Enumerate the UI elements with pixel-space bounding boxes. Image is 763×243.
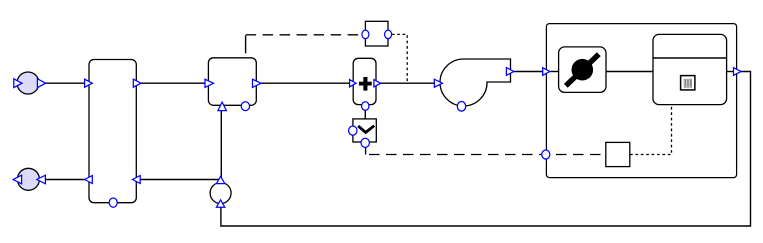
hea left port — [350, 80, 356, 87]
conTop right port — [385, 30, 392, 39]
wire hex top-right to eco left port — [140, 82, 207, 84]
hex bottom heat port — [109, 198, 117, 207]
souAir right port — [37, 79, 45, 88]
dashed control line eco top to conTop left port — [245, 36, 247, 54]
room convector icon — [681, 76, 695, 90]
dotted line conTop right port down to supply wire — [392, 34, 407, 83]
wire hea bottom port to hys block — [364, 109, 366, 120]
souRet right port — [37, 175, 46, 184]
hys left port — [349, 126, 357, 135]
fan outlet port — [506, 68, 513, 76]
wire souAir to hex top-left port — [45, 82, 87, 84]
wire return feedback: container outlet, down right side, along bottom, up to sensor — [221, 72, 751, 227]
wire damper to room — [606, 71, 654, 73]
hex bottom-left port — [85, 176, 93, 184]
hysteresis hys — [353, 119, 376, 142]
wire container inlet to damper — [546, 71, 559, 73]
sensor bottom port — [216, 200, 224, 207]
room header divider — [653, 57, 727, 59]
eco right port — [253, 79, 262, 87]
fan — [440, 59, 510, 106]
fan heat port — [457, 102, 465, 112]
room volume — [653, 34, 727, 104]
sensor temRoo — [210, 183, 231, 204]
controller conTop — [365, 21, 388, 46]
wire fan outlet to container inlet — [513, 71, 545, 73]
container outlet port — [734, 68, 742, 76]
sensor top port — [216, 176, 224, 183]
souRet sink circle — [17, 168, 39, 190]
eco bottom return port — [218, 102, 227, 111]
dotted line conv box to room bottom — [630, 105, 672, 155]
container room system boundary — [546, 24, 736, 178]
wire junction sensor to hex bottom-right port — [137, 179, 222, 181]
conductor box conv — [606, 142, 630, 166]
heater hea — [353, 58, 376, 104]
container control port — [542, 150, 550, 159]
hea right port — [374, 80, 381, 87]
container inlet port — [543, 68, 550, 76]
souAir left port — [14, 79, 22, 88]
heater plus icon — [359, 77, 372, 91]
hex top-right port — [133, 79, 141, 87]
dashed control line hys bottom port to container port and conv box — [369, 154, 606, 156]
hysteresis check icon — [358, 126, 374, 133]
wire hea right to fan inlet — [380, 82, 436, 84]
fan inlet port — [434, 79, 442, 87]
economizer eco — [208, 58, 256, 106]
heat exchanger hex — [89, 60, 136, 203]
wire sensor top to eco bottom port — [220, 110, 222, 179]
hea bottom heat port — [362, 102, 369, 111]
souRet left port — [13, 175, 21, 184]
eco bottom exhaust port — [241, 102, 249, 111]
hex bottom-right port — [133, 176, 141, 184]
conTop left port — [362, 30, 369, 39]
damper icon — [572, 59, 594, 81]
wire room to container outlet — [726, 71, 735, 73]
wire hex bottom-left to souRet — [46, 179, 87, 181]
damper valve — [559, 47, 606, 93]
hys bottom port — [361, 138, 369, 147]
wire hys bottom port stub — [365, 147, 367, 155]
wire eco right to hea left port — [261, 82, 352, 84]
souAir source circle — [17, 72, 39, 94]
eco left port — [205, 79, 214, 87]
hex top-left port — [85, 79, 93, 87]
